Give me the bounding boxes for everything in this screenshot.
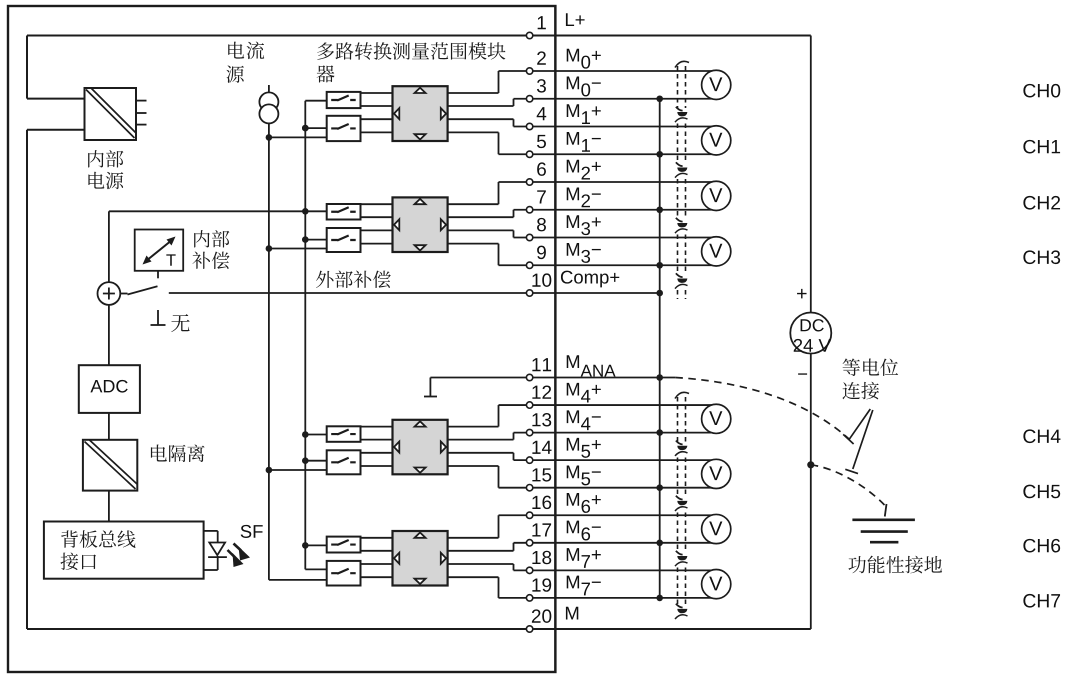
- wire S3b to mux3 in3: [361, 452, 393, 454]
- cable shield dashes ch2 left: [677, 179, 679, 219]
- cable shield dashes ch4 left: [677, 397, 679, 442]
- terminal 2 circle: [526, 68, 532, 74]
- terminal 15 circle: [526, 485, 532, 491]
- wire terminal 9 row: [499, 264, 721, 266]
- channel label CH2: [1023, 196, 1060, 210]
- terminal label M1+: [567, 104, 601, 124]
- voltmeter letter CH7: [709, 577, 722, 591]
- terminal label M2−: [567, 188, 601, 208]
- wire mux2 out4: [448, 243, 499, 245]
- junction common bus terminal 3: [656, 95, 663, 102]
- terminal 8 circle: [526, 234, 532, 240]
- junction common bus terminal 11: [656, 374, 663, 381]
- voltmeter V CH5: [702, 459, 731, 488]
- terminal 12 circle: [526, 402, 532, 408]
- cable shield arc after arrow: [675, 173, 688, 177]
- terminal 11 circle: [526, 374, 532, 380]
- terminal label M0+: [567, 49, 601, 69]
- wire S4b to mux4 in4: [361, 576, 393, 578]
- terminal label M0−: [567, 77, 601, 97]
- cable shield continuation arrow: [676, 604, 683, 608]
- wire V1 to group1 switch B input 2: [269, 136, 327, 138]
- terminal label MANA: [567, 355, 616, 376]
- wire V2 to group1 switch B input 1: [305, 127, 326, 129]
- junction common bus terminal 10: [656, 290, 663, 297]
- wire S4b to mux4 in3: [361, 563, 393, 565]
- cable shield dashes ch7 left: [677, 568, 679, 606]
- wire S3b to mux3 in4: [361, 465, 393, 467]
- label 连接 (bonding): [842, 382, 879, 400]
- LED triangle SF: [209, 543, 225, 556]
- channel label CH7: [1023, 594, 1060, 608]
- label 内部 (internal): [88, 150, 123, 167]
- mux U3 bottom triangle: [415, 468, 426, 473]
- terminal 14 circle: [526, 457, 532, 463]
- label 器: [317, 65, 335, 82]
- wire V2 to group2 switch B input 1: [305, 239, 326, 241]
- cable shield continuation arrow: [676, 441, 683, 445]
- cable shield dashes ch1 right: [685, 124, 687, 164]
- wire summing point to switch arm: [120, 293, 127, 295]
- mux U3 measuring range module box: [393, 420, 448, 475]
- wire V2 to group3 switch B input 1: [305, 460, 326, 462]
- cable shield dashes ch3 right: [685, 235, 687, 275]
- channel label CH6: [1023, 539, 1060, 553]
- terminal number 2: [537, 51, 546, 64]
- current source circle lower: [259, 104, 278, 123]
- wire comp bus horizontal: [109, 210, 305, 212]
- label 电流 (current): [228, 41, 264, 59]
- wire isolation to backplane box: [108, 491, 110, 522]
- terminal number 19: [532, 578, 551, 591]
- terminal number 13: [532, 413, 551, 426]
- LED loop vertical lower: [217, 556, 219, 570]
- channel label CH1: [1023, 140, 1060, 154]
- wire mux2 out3: [448, 229, 514, 231]
- wire S3a to mux3 in2: [361, 439, 393, 441]
- backplane bus interface box: [44, 522, 204, 579]
- terminal number 15: [532, 468, 551, 481]
- 24V text: [794, 339, 831, 352]
- wire terminal 5 row: [499, 153, 721, 155]
- wire terminal 6 row: [499, 181, 721, 183]
- wire S2a to mux2 in1: [361, 203, 393, 205]
- terminal label M3−: [567, 243, 601, 263]
- LED cathode bar: [208, 556, 227, 558]
- wire V2 to group3 switch A input: [305, 434, 326, 436]
- wire V1 to group3 switch B input 2: [269, 469, 327, 471]
- cable shield arc after arrow: [675, 562, 688, 566]
- wire terminal 19 row: [499, 597, 721, 599]
- terminal number 16: [532, 496, 551, 509]
- wire V1 to group4 switch B input 2: [269, 579, 327, 581]
- power box pin stub 3: [136, 124, 147, 126]
- wire terminal 14 row: [514, 459, 721, 461]
- mux U4 top triangle: [415, 533, 426, 538]
- terminal 10 circle: [526, 290, 532, 296]
- switch S4b box: [327, 561, 361, 586]
- terminal number 10: [532, 273, 551, 286]
- electrical isolation box: [83, 440, 137, 491]
- junction common bus terminal 9: [656, 262, 663, 269]
- switch S3b box: [327, 450, 361, 474]
- wire terminal 18 row: [514, 569, 721, 571]
- terminal 4 circle: [526, 123, 532, 129]
- wire mux1 out2: [448, 105, 514, 107]
- wire mux4 out3: [448, 563, 514, 565]
- power box pin stub 2: [136, 112, 147, 114]
- voltmeter letter CH4: [709, 411, 722, 425]
- mux U1 bottom triangle: [415, 134, 426, 139]
- cable shield continuation arrow: [676, 107, 683, 111]
- terminal 3 circle: [526, 96, 532, 102]
- wire V2 to group1 switch A input: [305, 100, 326, 102]
- equipotential dashed curve to earth: [811, 465, 885, 505]
- terminal 16 circle: [526, 512, 532, 518]
- wire S1a to mux1 in2: [361, 105, 393, 107]
- wire mux2 out3 riser to terminal 8: [513, 230, 515, 237]
- wire V2 to group2 switch A input: [305, 210, 326, 212]
- voltmeter V CH3: [702, 237, 731, 266]
- cable shield dashes ch4 right: [685, 397, 687, 442]
- wire mux2 out1 riser to terminal 6: [498, 182, 500, 204]
- junction V2 group2A: [302, 208, 309, 215]
- wire mux2 out1: [448, 203, 499, 205]
- cable shield dashes ch3 left: [677, 235, 679, 275]
- switch S4a box: [327, 537, 361, 553]
- terminal label L+: [566, 13, 585, 26]
- terminal number 17: [532, 523, 551, 536]
- wire terminal 8 row: [514, 237, 721, 239]
- terminal label M: [566, 607, 578, 620]
- plus sign in summing point: [103, 288, 115, 300]
- wire S2b to mux2 in3: [361, 229, 393, 231]
- wire summing point to ADC: [108, 305, 110, 365]
- voltmeter letter CH6: [709, 521, 722, 535]
- T letter in compensation box: [166, 254, 175, 265]
- wire V1 to group2 switch B input 2: [269, 248, 327, 250]
- terminal number 20: [532, 609, 551, 622]
- wire mux3 out3: [448, 452, 514, 454]
- cable shield continuation arrow: [676, 496, 683, 500]
- junction V1 group2B: [266, 245, 273, 252]
- wire mux1 out1: [448, 92, 499, 94]
- wire DC supply - down to M rail: [810, 353, 812, 629]
- switch S4b contact symbol: [331, 569, 356, 574]
- switch S3a contact symbol: [331, 430, 356, 435]
- voltmeter letter CH1: [709, 133, 722, 147]
- summing point circle: [98, 282, 121, 305]
- T box arrow: [143, 237, 176, 265]
- junction V1 group3B: [266, 467, 273, 474]
- MANA internal stub bar: [424, 396, 437, 398]
- mux U2 measuring range module box: [393, 197, 448, 252]
- DC plus sign: [797, 289, 806, 299]
- cable shield dashes ch7 right: [685, 568, 687, 606]
- junction V2 group3A: [302, 431, 309, 438]
- channel label CH3: [1023, 250, 1060, 264]
- terminal 7 circle: [526, 207, 532, 213]
- label 接口 (interface): [60, 552, 96, 570]
- cable shield dashes ch5 right: [685, 458, 687, 498]
- voltmeter V CH1: [702, 126, 731, 155]
- channel label CH4: [1023, 429, 1060, 443]
- cable shield continuation arrow: [676, 218, 683, 222]
- wire mux3 out2: [448, 439, 514, 441]
- terminal 13 circle: [526, 429, 532, 435]
- terminal 19 circle: [526, 595, 532, 601]
- internal compensation T box: [135, 230, 184, 271]
- terminal 17 circle: [526, 540, 532, 546]
- mux U4 right triangle: [441, 553, 446, 564]
- wire common MANA vertical bus: [659, 99, 661, 598]
- mux U2 top triangle: [415, 199, 426, 204]
- terminal number 7: [537, 190, 546, 203]
- terminal number 6: [537, 162, 546, 175]
- mux U1 top triangle: [415, 88, 426, 93]
- wire S1a to mux1 in1: [361, 92, 393, 94]
- wire mux1 out1 riser to terminal 2: [498, 71, 500, 93]
- wire summing point to comp bus: [108, 211, 110, 282]
- cable shield dashes ch6 left: [677, 513, 679, 553]
- switch S2b box: [327, 228, 361, 252]
- cable shield dashes ch6 right: [685, 513, 687, 553]
- terminal number 14: [532, 441, 551, 454]
- wire V2 to group4 switch B input 1: [305, 568, 326, 570]
- wire mux3 out4: [448, 465, 499, 467]
- label 外部补偿 (external compensation): [316, 271, 391, 288]
- cable shield arc after arrow: [675, 284, 688, 288]
- voltmeter letter CH3: [709, 244, 722, 258]
- junction V1 group1B: [266, 134, 273, 141]
- cable shield arc after arrow: [675, 615, 688, 619]
- junction common bus terminal 17: [656, 540, 663, 547]
- label 电隔离 (electrical isolation): [151, 445, 205, 463]
- voltmeter V CH0: [702, 70, 731, 99]
- junction V2 group1B: [302, 125, 309, 132]
- wire terminal 4 row: [514, 126, 721, 128]
- cable shield dashes comp tail left: [677, 290, 679, 299]
- mux U4 measuring range module box: [393, 531, 448, 586]
- terminal label M6+: [567, 493, 601, 513]
- junction common bus terminal 7: [656, 206, 663, 213]
- label 无 (none): [171, 314, 189, 332]
- label 电源 (power): [88, 172, 123, 189]
- cable shield arc after arrow: [675, 452, 688, 456]
- channel label CH0: [1023, 84, 1060, 98]
- DC 24V source circle: [790, 313, 831, 354]
- junction common bus terminal 15: [656, 484, 663, 491]
- mux U3 left triangle: [394, 442, 399, 453]
- wire measuring bus V2 vertical: [304, 101, 306, 570]
- channel label CH5: [1023, 485, 1060, 499]
- label 功能性接地 (functional earth): [848, 556, 942, 574]
- junction common bus terminal 19: [656, 595, 663, 602]
- voltmeter letter CH5: [709, 466, 722, 480]
- wire S3a to mux3 in1: [361, 426, 393, 428]
- terminal label M1−: [567, 132, 601, 152]
- wire mux2 out4 riser to terminal 9: [498, 244, 500, 266]
- switch S3a box: [327, 426, 361, 442]
- wire mux2 out2 riser to terminal 7: [513, 210, 515, 217]
- LED loop bottom stub: [204, 569, 218, 571]
- mux U4 bottom triangle: [415, 579, 426, 584]
- switch S1b contact symbol: [331, 124, 356, 129]
- cable shield opening arc: [675, 61, 689, 67]
- isolation diagonal lines in power box: [86, 88, 136, 138]
- junction V2 group2B: [302, 236, 309, 243]
- equipotential dashed curve from MANA: [675, 378, 849, 440]
- switch S2a box: [327, 204, 361, 220]
- no-comp contact stub: [157, 310, 159, 325]
- cable shield dashes ch2 right: [685, 179, 687, 219]
- switch S2a contact symbol: [331, 207, 356, 212]
- switch S1a contact symbol: [331, 96, 356, 101]
- terminal number 4: [537, 107, 547, 120]
- wire mux4 out1 riser to terminal 16: [498, 515, 500, 538]
- wire terminal 3 row: [514, 98, 721, 100]
- cable shield continuation arrow: [676, 273, 683, 277]
- wire mux3 out2 riser to terminal 13: [513, 433, 515, 440]
- wire mux3 out4 riser to terminal 15: [498, 466, 500, 488]
- mux U1 right triangle: [441, 108, 446, 119]
- terminal number 3: [537, 79, 546, 92]
- power box pin stub 1: [136, 100, 147, 102]
- switch S4a contact symbol: [331, 540, 356, 545]
- wire mux4 out1: [448, 537, 499, 539]
- cable shield arc after arrow: [675, 118, 688, 122]
- wire mux4 out3 riser to terminal 18: [513, 564, 515, 570]
- switch S2b contact symbol: [331, 236, 356, 241]
- label 源 (source): [226, 66, 244, 83]
- wire terminal 16 row: [499, 514, 721, 516]
- junction V2 group3B: [302, 457, 309, 464]
- wire S1b to mux1 in4: [361, 131, 393, 133]
- current source circle upper: [259, 92, 278, 111]
- wire terminal 7 row: [514, 209, 721, 211]
- terminal 6 circle: [526, 179, 532, 185]
- wire mux3 out3 riser to terminal 14: [513, 453, 515, 460]
- switch S1a box: [327, 92, 361, 108]
- LED emission arrows: [228, 544, 251, 568]
- voltmeter V CH4: [702, 404, 731, 433]
- SF label: [241, 525, 263, 538]
- wire terminal 2 row: [499, 70, 721, 72]
- wire into internal power supply top: [27, 98, 85, 100]
- voltmeter letter CH2: [709, 188, 722, 202]
- mux U4 left triangle: [394, 553, 399, 564]
- wire mux1 out2 riser to terminal 3: [513, 99, 515, 106]
- terminal number 9: [537, 246, 546, 259]
- label 内部 (internal comp): [194, 230, 229, 247]
- label 等电位 (equipotential): [843, 359, 899, 376]
- terminal 9 circle: [526, 262, 532, 268]
- isolation diagonal lines: [85, 440, 138, 489]
- cable shield continuation arrow: [676, 551, 683, 555]
- earth bar short: [870, 541, 898, 544]
- mux U2 left triangle: [394, 219, 399, 230]
- terminal number 12: [532, 385, 551, 398]
- label 多路转换测量范围模块 (multiplexer measuring range module): [317, 42, 505, 60]
- wire terminal 10 Comp+ row: [169, 292, 660, 294]
- connector border line: [554, 6, 556, 672]
- cable shield continuation arrow: [676, 162, 683, 166]
- cable shield dashes comp tail right: [685, 290, 687, 299]
- wire mux1 out4: [448, 131, 499, 133]
- mux U1 measuring range module box: [393, 86, 448, 141]
- voltmeter letter CH0: [709, 77, 722, 91]
- wire terminal 13 row: [514, 432, 721, 434]
- internal power supply box (isolation converter): [85, 88, 137, 140]
- terminal label Comp+: [561, 271, 619, 288]
- wire mux1 out4 riser to terminal 5: [498, 132, 500, 154]
- current source top stub: [268, 85, 270, 94]
- wire V2 to group4 switch A input: [305, 544, 326, 546]
- voltmeter V CH6: [702, 514, 731, 543]
- compensation selector switch arm: [128, 286, 158, 294]
- wire S4a to mux4 in2: [361, 550, 393, 552]
- terminal number 1: [538, 16, 546, 29]
- mux U2 right triangle: [441, 219, 446, 230]
- label 背板总线 (backplane bus): [61, 530, 135, 548]
- pointer arrows from equipotential label: [843, 409, 873, 474]
- wire current source vertical bus V1: [268, 123, 270, 580]
- DC text: [801, 319, 824, 331]
- cable shield dashes ch0 left: [677, 66, 679, 108]
- T box bottom pin: [157, 271, 159, 279]
- terminal number 11: [532, 358, 551, 371]
- cable shield arc after arrow: [675, 507, 688, 511]
- LED loop top stub: [204, 530, 218, 532]
- DC minus sign: [798, 373, 807, 374]
- wire S2b to mux2 in4: [361, 243, 393, 245]
- mux U2 bottom triangle: [415, 245, 426, 250]
- wire module left border upper: [26, 36, 28, 99]
- wire mux1 out3 riser to terminal 4: [513, 119, 515, 126]
- junction common bus terminal 13: [656, 429, 663, 436]
- cable shield opening arc: [675, 392, 689, 398]
- wire L+ top rail (terminal 1 to DC+): [27, 35, 811, 37]
- junction equipotential on DC line: [807, 461, 814, 468]
- wire mux3 out1 riser to terminal 12: [498, 405, 500, 427]
- mux U3 right triangle: [441, 442, 446, 453]
- switch S3b contact symbol: [331, 458, 356, 463]
- wire S2a to mux2 in2: [361, 216, 393, 218]
- junction V2 group4A: [302, 542, 309, 549]
- wire S4a to mux4 in1: [361, 537, 393, 539]
- earth stub: [885, 504, 887, 517]
- terminal 18 circle: [526, 567, 532, 573]
- wire mux1 out3: [448, 118, 514, 120]
- no-comp contact bar: [151, 324, 166, 326]
- terminal number 8: [537, 218, 546, 231]
- wire from internal power supply bottom: [27, 129, 85, 131]
- wire terminal 11 MANA row: [430, 377, 675, 379]
- wire terminal 12 row: [499, 404, 721, 406]
- terminal 1 circle: [526, 32, 532, 38]
- terminal number 5: [537, 135, 546, 148]
- wire terminal 15 row: [499, 487, 721, 489]
- cable shield dashes ch5 left: [677, 458, 679, 498]
- earth bar long: [852, 518, 915, 521]
- label 补偿 (compensation): [192, 252, 229, 269]
- wire ADC to isolation: [108, 413, 110, 440]
- wire mux4 out2 riser to terminal 17: [513, 543, 515, 551]
- cable shield dashes ch1 left: [677, 124, 679, 164]
- terminal label M4+: [567, 383, 601, 403]
- wire L+ down to DC supply +: [810, 36, 812, 313]
- wire mux3 out1: [448, 426, 499, 428]
